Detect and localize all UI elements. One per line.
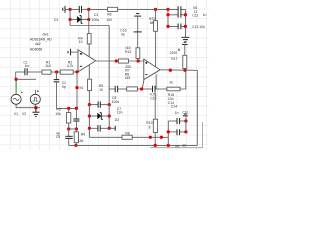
capacitor C13 [168,25,185,27]
resistor R4 [78,34,91,57]
ladder buses [89,89,109,137]
wire bottom loop [70,25,109,27]
capacitor C6 at + input [68,49,78,56]
wire U2 V- pin [155,74,157,89]
junction V1 top [14,78,17,81]
svg-text:C14: C14 [171,105,177,109]
junction R17 bottom [183,69,186,72]
svg-text:C11: C11 [182,111,188,115]
wire [155,88,167,90]
junction C9 top [67,127,70,130]
svg-text:1m: 1m [25,64,30,68]
right bus [184,9,186,28]
wire U2 output [160,69,197,72]
resistor R7 [119,59,131,80]
wire [132,136,168,138]
voltage source V1 [11,92,22,116]
svg-text:8: 8 [149,125,151,129]
svg-text:100u: 100u [92,18,100,22]
svg-text:b1: b1 [80,86,84,90]
wire [137,88,152,90]
svg-text:10: 10 [99,88,103,92]
svg-text:R9: R9 [81,132,85,136]
capacitor C7 rung [89,118,119,132]
wire R6 to top-right [118,8,168,10]
junction C7 left [88,127,91,130]
junction left bus top [166,8,169,11]
op-amp U1 V- pin and resistor R5 [88,65,104,105]
terminal circle marker [178,49,180,51]
wire U1 output [95,60,144,62]
junction D2 right [108,114,111,117]
capacitor C4 [63,6,70,13]
wire [27,71,42,73]
wire long feedback column [108,26,110,90]
wire to R6 [89,8,108,10]
green wire V1 [15,79,17,93]
capacitor C12a [168,8,185,10]
bottom bus wire [69,144,198,146]
svg-text:10k: 10k [55,112,61,116]
wire output down column [196,70,198,145]
svg-text:13n: 13n [117,110,123,114]
wire A bottom row [89,136,122,138]
wire R18 to output node [180,70,186,89]
svg-text:C13: C13 [192,25,198,29]
ground top right [184,28,186,37]
capacitor C12 [168,14,185,16]
junction R9 top [75,127,78,130]
capacitor C17 [115,86,117,93]
svg-text:0p: 0p [121,32,125,36]
wire [16,71,25,73]
svg-text:15k: 15k [78,139,84,143]
junctions [166,13,169,16]
svg-text:12: 12 [182,144,186,148]
wire [51,71,60,73]
signal column down [76,72,78,108]
wire stub right [16,78,36,80]
capacitor C2 [54,72,67,108]
svg-text:0p: 0p [62,85,66,89]
node signal A junction [55,70,58,73]
svg-text:V1: V1 [14,112,18,116]
wire C2 to R3 rung [57,107,77,109]
svg-text:1n: 1n [203,13,207,17]
input corner wire from V1 [15,72,17,80]
resistor R10 bottom [122,131,132,139]
svg-text:C9: C9 [56,135,60,139]
resistor R13 [125,32,140,61]
capacitor C5 [79,6,81,13]
svg-text:D2: D2 [115,118,119,122]
junction R22 top [154,8,157,11]
junction D2 left [88,114,91,117]
svg-text:4,7k: 4,7k [67,64,74,68]
wire [73,71,78,73]
svg-text:D1: D1 [54,18,58,22]
svg-text:C12: C12 [192,14,198,18]
svg-text:10: 10 [79,40,83,44]
capacitor C9 [56,129,73,145]
junction ground [34,106,37,109]
svg-text:R13: R13 [125,50,131,54]
node A top junction [68,8,71,11]
junction bottom row 2 [160,136,163,139]
svg-text:R6: R6 [107,12,111,16]
frame border bottom right [150,122,203,148]
junction mid column [75,86,78,89]
junctions V4 block [167,130,170,133]
resistor R9 [74,129,85,145]
svg-text:R8: R8 [125,131,129,135]
wire [118,88,127,90]
junction R13 bottom [137,59,140,62]
label block AD8066 [30,33,52,52]
ground [32,108,39,117]
wire U2 minus diagonal [142,80,144,89]
wire [82,8,89,10]
junction C7 right [108,127,111,130]
junction V4 block bottom [167,144,170,147]
capacitor C19 labels and column [150,89,157,119]
resistor R19 [146,119,157,145]
voltage source V2 [22,90,40,116]
wire [70,8,79,10]
junction ladder right top [108,103,111,106]
node signal B junction [75,70,78,73]
V4 capacitor block left bus [167,121,169,145]
junction output 1 [169,69,172,72]
svg-text:C3: C3 [94,13,98,17]
svg-text:10n: 10n [199,25,205,29]
node B top junction [87,8,90,11]
wire rung [69,128,77,130]
diode D2 zener [89,107,122,120]
svg-text:1k3: 1k3 [125,76,131,80]
op-amp U1 [78,50,96,72]
resistor R22 [149,9,158,67]
junction R3 top [67,107,70,110]
svg-text:1n: 1n [175,111,179,115]
svg-text:R17: R17 [171,57,177,61]
svg-text:2200: 2200 [170,51,178,55]
capacitor C18 [153,86,156,93]
svg-text:2k: 2k [169,81,173,85]
capacitor C1 [23,61,29,76]
left bus [167,9,169,26]
junction R9 bottom [74,144,77,147]
op-amp U2 [144,59,160,80]
svg-text:88: 88 [150,21,154,25]
capacitor C14 rung [168,118,186,124]
svg-text:AD8066: AD8066 [30,47,42,51]
svg-text:dw1: dw1 [43,33,49,37]
resistor R1 [42,61,51,75]
capacitor C13b rung [168,129,186,135]
capacitor C11 top [182,111,188,132]
junction minus node [140,87,143,90]
junction R19 bottom [154,144,157,147]
capacitor C16 [120,14,142,37]
svg-text:da2: da2 [35,42,41,46]
svg-text:100: 100 [106,18,112,22]
junction ladder left top [88,103,91,106]
junction output row [115,59,118,62]
diode D1 zener [70,16,89,24]
svg-text:1k3: 1k3 [45,64,51,68]
svg-text:100u: 100u [112,100,120,104]
feedback bottom row wire [109,88,115,90]
resistor R2 [60,61,73,75]
capacitor C8 rung [89,96,119,108]
resistor R18 [167,81,180,98]
junction C15 top [75,107,78,110]
resistor R8b [127,87,138,91]
top right capacitor bank [166,6,206,42]
svg-text:1k3: 1k3 [125,46,131,50]
resistor R3 [55,108,70,129]
wire node B vertical [88,9,90,33]
wire node A vertical [69,9,71,25]
svg-text:V2: V2 [22,112,26,116]
junction bottom row 1 [149,136,152,139]
label C3 100u [92,13,100,22]
resistor R17 [170,42,188,70]
labels bottom right [168,97,186,148]
wire stub terminal [109,126,115,131]
resistor R6 [106,7,117,22]
svg-text:AD823AN_AD: AD823AN_AD [30,38,52,42]
wire V1 V2 bottoms [16,104,40,107]
capacitor C15 [73,108,79,129]
node A lower junction [68,18,71,21]
node B lower junction [87,18,90,21]
